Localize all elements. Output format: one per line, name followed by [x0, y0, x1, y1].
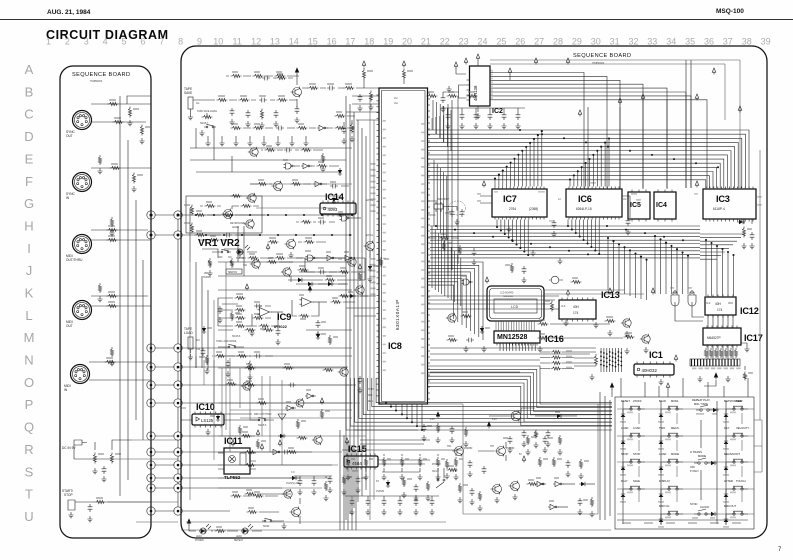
svg-text:34: 34 — [666, 37, 676, 47]
IC8 bottom pin drops — [385, 402, 423, 431]
svg-text:IC12: IC12 — [740, 306, 759, 316]
repeat switch SW9b and TR — [231, 440, 300, 529]
svg-text:STOP: STOP — [633, 452, 640, 456]
wires IC12 to IC17 — [708, 316, 733, 329]
left board resistors near MIDI OUT/THRU — [107, 225, 118, 242]
extra column wires x372 — [370, 96, 374, 520]
svg-text:LCD: LCD — [511, 305, 519, 309]
extra small parts right of pads mid — [202, 306, 240, 334]
switch RESET/2XOFF SW5 — [620, 399, 645, 423]
switch matrix outline — [615, 397, 754, 529]
decoupling caps near IC2 — [508, 68, 512, 80]
TR stage mid analog — [444, 446, 473, 479]
svg-text:POWER: POWER — [195, 540, 204, 542]
svg-text:37: 37 — [723, 37, 733, 47]
switch AFTER TOUCH SW5-4 — [723, 479, 748, 503]
extra horizontal wires mid left rows — [218, 262, 352, 356]
bus control lines to IC12 IC17 region — [607, 234, 745, 300]
extra junction dots on buses — [435, 129, 719, 255]
svg-text:TR7: TR7 — [490, 446, 495, 448]
tempo LED and switch — [212, 245, 257, 260]
left board resistors near MIDI OUT — [107, 291, 118, 308]
switch MIDI CH SW14 — [658, 504, 683, 528]
wires upper left of IC8 — [346, 96, 379, 120]
svg-text:21: 21 — [421, 37, 431, 47]
svg-text:IC5: IC5 — [630, 202, 641, 209]
svg-text:40H: 40H — [573, 305, 580, 309]
IC IC6 6264LP-15 RAM — [558, 187, 628, 220]
wires tape section to IC8 — [296, 88, 379, 284]
tape load filter components — [212, 351, 273, 391]
switch MEAS/CONT CHANGE SW5-3 — [723, 452, 748, 476]
long verticals right side — [588, 60, 691, 189]
left board inner vertical wires — [120, 96, 143, 496]
wires from upper bus down the left of memory row — [434, 160, 447, 240]
svg-text:VDD: VDD — [728, 303, 733, 305]
switch MIDI OUT SW5-5 — [723, 504, 748, 528]
wires LCD to IC13 — [544, 290, 644, 294]
diode and resistor row near pads — [210, 414, 322, 455]
svg-text:REPEAT PLAY,: REPEAT PLAY, — [692, 398, 711, 402]
caps left of IC15 — [327, 475, 366, 495]
extra parts cluster mid tape — [248, 145, 326, 172]
svg-text:10: 10 — [213, 37, 223, 47]
left board outline SEQUENCE BOARD — [60, 66, 151, 538]
components between IC13 and T801 — [538, 319, 624, 340]
IC IC2 40H138 decoder — [440, 54, 503, 119]
LCD board module — [487, 286, 544, 321]
IC IC11 TLP552 optocoupler — [218, 436, 264, 480]
transistors T801 T803 drivers — [605, 316, 651, 353]
svg-text:SW15-5: SW15-5 — [258, 425, 267, 427]
svg-text:L: L — [25, 308, 32, 323]
power arrow cluster mid right — [610, 383, 670, 397]
svg-text:9: 9 — [197, 37, 202, 47]
op-amp A2 IC9 output — [292, 286, 368, 337]
svg-text:IC4: IC4 — [656, 202, 667, 209]
TAPE LOAD jack — [184, 327, 210, 374]
svg-text:T: T — [25, 487, 33, 502]
svg-text:KEY: KEY — [724, 426, 730, 430]
bus address lines IC8 to memories — [428, 130, 750, 188]
svg-text:36: 36 — [704, 37, 714, 47]
foot switch components bottom — [231, 489, 293, 499]
wires midi section vertical — [240, 368, 282, 465]
inverter pair lower — [548, 497, 595, 517]
IC7 side components — [477, 181, 557, 237]
extra components below IC9 — [245, 325, 363, 393]
bus junction staircase to IC6 — [569, 137, 610, 186]
diode row near IC9 output — [296, 282, 348, 286]
horizontal wires lower mid — [218, 368, 366, 488]
svg-text:39: 39 — [761, 37, 771, 47]
left board lower wires to pads — [96, 440, 178, 522]
IC IC3 6116P-4 RAM — [694, 181, 762, 222]
tape save RC network — [193, 95, 297, 128]
svg-text:SW9b: SW9b — [263, 526, 270, 528]
svg-text:K: K — [25, 286, 34, 301]
transistor TR6 regulator — [487, 408, 577, 455]
wires IC16 to IC1 area — [574, 352, 596, 363]
svg-text:2SD880: 2SD880 — [464, 448, 473, 450]
svg-text:TEMPO2: TEMPO2 — [228, 272, 238, 274]
svg-text:2764: 2764 — [509, 207, 516, 211]
svg-text:9.4V: 9.4V — [430, 419, 435, 421]
board-to-board pad columns — [147, 211, 182, 515]
svg-text:OFF: OFF — [218, 257, 223, 259]
svg-text:OUT/THRU: OUT/THRU — [66, 258, 83, 262]
svg-text:1S2539: 1S2539 — [376, 491, 385, 493]
IC3 lower right components — [737, 219, 755, 249]
wires right side IC12 IC17 verticals — [708, 346, 733, 360]
svg-text:23: 23 — [459, 37, 469, 47]
extra bottom mid caps grounds — [345, 496, 439, 515]
bottom rail wires — [181, 522, 611, 530]
svg-text:LOAD: LOAD — [184, 331, 193, 335]
transistor TR7 regulator — [478, 442, 589, 479]
svg-text:P: P — [25, 397, 34, 412]
data bus staircase from IC7 — [496, 220, 529, 257]
svg-text:14: 14 — [289, 37, 299, 47]
bus left bundle bends to matrix rows — [346, 378, 612, 430]
IC9 label IR9022 — [274, 312, 291, 329]
svg-text:16: 16 — [327, 37, 337, 47]
IC MN12528 LCD driver — [494, 331, 564, 346]
svg-text:MODE: MODE — [698, 454, 706, 458]
op-amp stage upper — [218, 284, 271, 328]
svg-text:RESET: RESET — [621, 399, 630, 403]
svg-text:ON: ON — [228, 257, 232, 259]
svg-text:33: 33 — [647, 37, 657, 47]
IC IC10 LS125 — [192, 402, 224, 435]
IC IC12 40H174 latch — [705, 295, 759, 318]
switch REPEAT PLAY MID/TAPE SW966 — [692, 398, 719, 415]
svg-text:O TRANS: O TRANS — [690, 450, 702, 454]
extra horizontals near matrix rows left — [230, 410, 352, 418]
IC IC15 4584 — [344, 438, 378, 472]
svg-text:SEQUENCE BOARD: SEQUENCE BOARD — [573, 53, 631, 59]
svg-text:28: 28 — [553, 37, 563, 47]
svg-text:M: M — [24, 330, 35, 345]
wire matrix to right border — [754, 420, 762, 472]
svg-text:P ONLY: P ONLY — [690, 470, 699, 473]
svg-text:REPEAT: REPEAT — [234, 539, 244, 542]
pad column vertical wires — [151, 124, 178, 507]
MN12528 bottom pins to bus — [500, 344, 535, 352]
svg-text:IC8: IC8 — [388, 341, 402, 351]
svg-text:OFF: OFF — [690, 466, 695, 469]
resistor array below IC17 — [704, 348, 737, 358]
svg-text:LOAD: LOAD — [659, 452, 666, 456]
more parts tape row y76 — [226, 71, 299, 78]
bus matrix left risers — [340, 430, 356, 530]
svg-text:6301X0A1IP: 6301X0A1IP — [395, 299, 400, 330]
svg-text:CLOCK: CLOCK — [700, 505, 709, 509]
ground and arrows below connector comb — [697, 366, 753, 386]
svg-text:STBY: STBY — [368, 389, 374, 391]
IC IC1 40H032 — [634, 350, 678, 378]
svg-text:5V: 5V — [519, 454, 522, 456]
long verticals IC2 left pins down — [448, 96, 458, 276]
connector J5 SYNC IN — [66, 173, 92, 201]
svg-text:17: 17 — [345, 37, 355, 47]
svg-text:VELOCITY: VELOCITY — [736, 426, 749, 430]
svg-text:R: R — [24, 442, 33, 457]
svg-text:AFTER: AFTER — [724, 479, 733, 483]
svg-text:AUG. 21, 1984: AUG. 21, 1984 — [47, 9, 91, 16]
VR1 VR2 tempo potentiometers — [198, 238, 242, 279]
keyboard connector comb below IC17 — [690, 359, 741, 369]
svg-text:TLP552: TLP552 — [224, 475, 241, 480]
svg-text:40H: 40H — [715, 302, 722, 306]
switch TWO MEAS SW11 — [658, 426, 683, 450]
caps cluster below IC11 — [294, 476, 332, 501]
left board resistors near MIDI IN — [105, 357, 116, 364]
svg-text:IC2: IC2 — [492, 108, 503, 115]
LCD pin hatch to driver — [496, 321, 534, 331]
svg-text:15: 15 — [308, 37, 318, 47]
svg-text:174: 174 — [717, 308, 723, 312]
power rail caps row — [421, 412, 468, 447]
svg-text:MN12528: MN12528 — [497, 334, 527, 341]
switch matrix row rails — [617, 409, 754, 520]
svg-text:IC16: IC16 — [545, 334, 564, 344]
switch matrix column rails — [623, 401, 726, 524]
power switch POWER — [425, 464, 445, 501]
svg-text:7: 7 — [159, 37, 164, 47]
svg-text:22: 22 — [440, 37, 450, 47]
svg-text:J: J — [26, 263, 33, 278]
zener and caps bottom left of analog — [447, 465, 487, 505]
svg-text:MEAS: MEAS — [671, 426, 679, 430]
IC IC5 gate — [628, 190, 650, 222]
more junction dots row 215 235 — [195, 214, 353, 236]
svg-text:BEAT: BEAT — [736, 399, 743, 403]
connector J8 MIDI IN — [64, 365, 90, 393]
svg-text:IC13: IC13 — [601, 290, 620, 300]
svg-text:SAVE: SAVE — [184, 91, 192, 95]
svg-text:IR9022: IR9022 — [274, 324, 288, 329]
svg-text:19: 19 — [383, 37, 393, 47]
analog bottom extra row — [342, 450, 463, 472]
svg-text:STOP: STOP — [621, 452, 628, 456]
connector J6 MIDI OUT/THRU — [66, 235, 92, 263]
left board wires connectors to pads — [89, 96, 151, 380]
svg-text:BACK: BACK — [659, 399, 667, 403]
svg-text:U: U — [24, 509, 33, 524]
data bus staircase from IC6 — [567, 220, 600, 256]
IC IC13 40H174 latch — [545, 290, 620, 322]
svg-text:3: 3 — [84, 37, 89, 47]
svg-text:MIDI OUT/THRU: MIDI OUT/THRU — [254, 414, 272, 416]
svg-text:SYNC: SYNC — [690, 502, 698, 506]
svg-text:IC15: IC15 — [348, 444, 367, 454]
junction dots on pad rows — [150, 214, 180, 237]
svg-text:1: 1 — [46, 37, 51, 47]
svg-text:TAPE LOAD MODE: TAPE LOAD MODE — [216, 340, 237, 343]
switch KEY VELOCITY SW5-2 — [723, 426, 749, 450]
IC8 left pin labels P20-P27 — [366, 163, 376, 403]
svg-text:76395I0000: 76395I0000 — [90, 81, 103, 83]
svg-text:4584: 4584 — [352, 461, 362, 466]
IC IC7 2764 ROM — [492, 187, 547, 220]
transistor TR2 stage — [268, 237, 327, 258]
top right horizontal rails — [490, 52, 740, 188]
extra caps ground row tape area — [441, 108, 525, 129]
svg-text:G: G — [24, 196, 34, 211]
svg-text:TR1: TR1 — [447, 446, 452, 448]
svg-text:11: 11 — [233, 37, 242, 47]
svg-text:MEAS/CONT: MEAS/CONT — [724, 452, 740, 456]
tape load mode switch — [196, 336, 244, 356]
svg-text:LS125: LS125 — [201, 418, 214, 423]
comparator stage T9x — [338, 233, 459, 298]
wire bundle left of IC8 vertical — [346, 96, 366, 520]
bus IC2 outputs to memory selects — [493, 73, 707, 189]
svg-text:27: 27 — [534, 37, 544, 47]
svg-text:24: 24 — [477, 37, 487, 47]
right side double border hint — [759, 150, 761, 420]
connector J4 SYNC OUT — [66, 111, 92, 139]
switch PLAY/SAVE SW9 — [620, 479, 645, 503]
svg-text:CLK: CLK — [706, 303, 711, 305]
more components right of metronome — [283, 159, 342, 176]
IC IC17 M64527P — [703, 326, 763, 352]
switch LOAD MODE SW12 — [658, 452, 683, 476]
buffer triangles near IC10 — [278, 389, 330, 429]
svg-text:38: 38 — [742, 37, 752, 47]
svg-text:C: C — [24, 107, 33, 122]
IC6 side components — [590, 182, 641, 235]
transistor T10 stage — [243, 244, 293, 269]
svg-text:2SD880: 2SD880 — [506, 448, 515, 450]
wires between IC15 and analog — [354, 430, 430, 444]
svg-text:O: O — [24, 375, 34, 390]
svg-text:LOAD: LOAD — [621, 426, 628, 430]
svg-text:Q: Q — [24, 420, 34, 435]
main board outline SEQUENCE BOARD — [181, 46, 767, 538]
components below data bus — [505, 263, 582, 284]
svg-text:STOP: STOP — [64, 493, 73, 497]
switch LOAD/LOAD SW7 — [620, 426, 645, 450]
extra verticals left mid column — [190, 208, 244, 370]
matrix cell connection wires — [639, 413, 742, 502]
left board resistors near SYNC OUT — [108, 99, 152, 144]
svg-text:32: 32 — [628, 37, 638, 47]
svg-text:C12: C12 — [196, 349, 201, 351]
bus bends left of memory row — [432, 226, 461, 306]
svg-text:LED2: LED2 — [236, 536, 242, 538]
svg-text:OUT: OUT — [66, 134, 73, 138]
bus junction staircase to IC7 — [494, 130, 543, 186]
bus IC8 right to LCD with bends — [428, 262, 484, 340]
svg-text:LOAD: LOAD — [633, 426, 640, 430]
svg-text:MODE: MODE — [671, 452, 679, 456]
transistor TR4 stage — [231, 179, 350, 204]
svg-text:40H138: 40H138 — [473, 85, 478, 101]
svg-text:20: 20 — [402, 37, 412, 47]
switch SYNC CLOCK SW2 — [690, 502, 717, 519]
svg-text:SW1: SW1 — [432, 471, 438, 473]
extra caps row analog upper — [521, 430, 550, 448]
svg-text:IC3: IC3 — [716, 194, 730, 204]
svg-text:31: 31 — [610, 37, 620, 47]
svg-text:M64527P: M64527P — [707, 336, 721, 340]
extra resistor row top right of tape — [427, 91, 478, 98]
C9 damper diode D6 — [286, 472, 300, 485]
bus IC8 to IC13 lines — [428, 296, 560, 309]
DC IN 9V jack J12 — [62, 440, 132, 482]
svg-text:35: 35 — [685, 37, 695, 47]
more wires upper mid horizontals — [250, 184, 352, 208]
svg-text:TOUCH: TOUCH — [736, 479, 746, 483]
svg-text:B: B — [25, 84, 34, 99]
svg-text:18: 18 — [364, 37, 374, 47]
crystal X1 KNFC5027 with load caps — [428, 199, 466, 225]
svg-text:6116P-4: 6116P-4 — [713, 207, 725, 211]
svg-text:LCD BOARD: LCD BOARD — [500, 292, 514, 295]
svg-text:25: 25 — [496, 37, 506, 47]
transistor TRL lower — [281, 265, 309, 282]
bus data lines under memory row — [430, 226, 700, 258]
left board resistors near SYNC IN — [110, 163, 144, 192]
START/STOP jack J13 — [62, 489, 151, 522]
svg-text:(2365): (2365) — [529, 207, 538, 211]
scattered power arrows and grounds — [463, 58, 741, 385]
diagonal bus IC8 top right corner — [432, 115, 443, 142]
svg-text:SAVE: SAVE — [633, 479, 640, 483]
wires IC1 region to matrix top — [621, 378, 748, 397]
svg-text:6: 6 — [140, 37, 145, 47]
components near pads rows upper — [195, 210, 266, 237]
resistor array left of IC1 with junction dots — [594, 348, 622, 372]
svg-text:MSQ-100: MSQ-100 — [716, 8, 744, 15]
svg-text:4: 4 — [103, 37, 108, 47]
matrix bottom label row — [622, 522, 741, 524]
svg-text:29: 29 — [572, 37, 582, 47]
inverter pair bottom — [535, 477, 595, 487]
upper bus corner stubs near IC8 top — [433, 100, 451, 151]
switch DISPLAY SW13 — [658, 479, 683, 503]
TAPE SAVE jack and level pot — [184, 87, 218, 136]
nand gates G1 G2 near IC13 — [670, 287, 696, 307]
IC IC14 4093 — [320, 192, 356, 217]
transistor TR1 amp stage — [258, 68, 364, 123]
svg-text:6264LP-15: 6264LP-15 — [576, 207, 592, 211]
svg-text:H: H — [24, 219, 33, 234]
metronome level block — [184, 196, 262, 242]
svg-text:D: D — [24, 129, 33, 144]
svg-text:IC10: IC10 — [196, 402, 215, 412]
tempo oscillator row — [242, 241, 389, 283]
svg-text:SW15-6: SW15-6 — [232, 336, 241, 338]
op-amp A1 IC9 — [249, 305, 283, 345]
wires IC10 region to pads — [182, 408, 261, 420]
junction dots pad rows — [150, 347, 180, 513]
svg-text:SEQUENCE BOARD: SEQUENCE BOARD — [72, 72, 130, 78]
resistor ladder right of MN12528 — [540, 350, 574, 370]
svg-text:IC7: IC7 — [503, 194, 517, 204]
svg-text:E: E — [25, 151, 34, 166]
svg-text:174: 174 — [573, 311, 579, 315]
svg-text:F: F — [25, 174, 33, 189]
more grounds row under tape save — [205, 136, 308, 146]
analog bottom ground row — [345, 474, 458, 480]
IC IC8 6301X0A1P main CPU — [377, 88, 431, 404]
svg-text:IC9: IC9 — [277, 312, 291, 323]
svg-text:8: 8 — [178, 37, 183, 47]
svg-text:2: 2 — [65, 37, 70, 47]
